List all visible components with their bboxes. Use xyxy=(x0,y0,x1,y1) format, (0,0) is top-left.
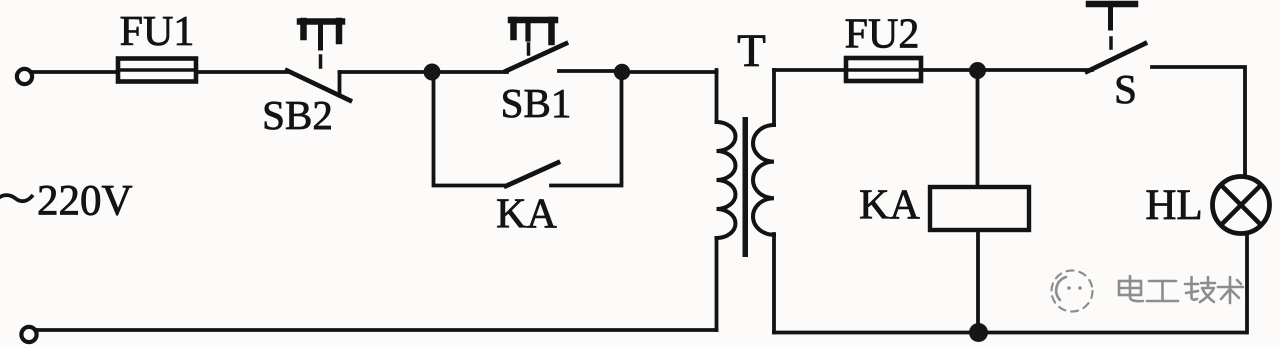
svg-text:T: T xyxy=(737,25,766,77)
svg-text:FU2: FU2 xyxy=(845,12,920,58)
svg-text:SB2: SB2 xyxy=(262,92,333,138)
svg-text:220V: 220V xyxy=(37,178,133,225)
svg-text:FU1: FU1 xyxy=(120,9,195,55)
svg-text:KA: KA xyxy=(859,183,920,229)
svg-text:SB1: SB1 xyxy=(501,80,572,126)
svg-text:KA: KA xyxy=(496,192,557,238)
svg-text:HL: HL xyxy=(1145,182,1202,229)
svg-text:S: S xyxy=(1114,66,1137,112)
